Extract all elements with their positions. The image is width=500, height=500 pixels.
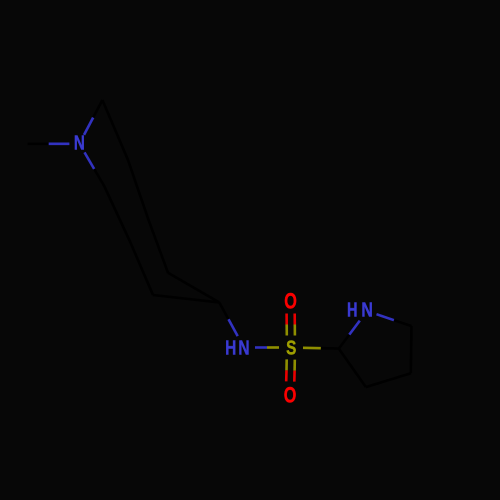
svg-text:O: O	[284, 382, 297, 407]
svg-text:N: N	[238, 336, 249, 359]
svg-text:N: N	[74, 132, 85, 155]
svg-text:S: S	[286, 336, 296, 359]
svg-text:O: O	[284, 288, 297, 313]
svg-text:N: N	[361, 299, 373, 322]
svg-text:H: H	[225, 336, 236, 359]
svg-text:H: H	[347, 299, 358, 322]
